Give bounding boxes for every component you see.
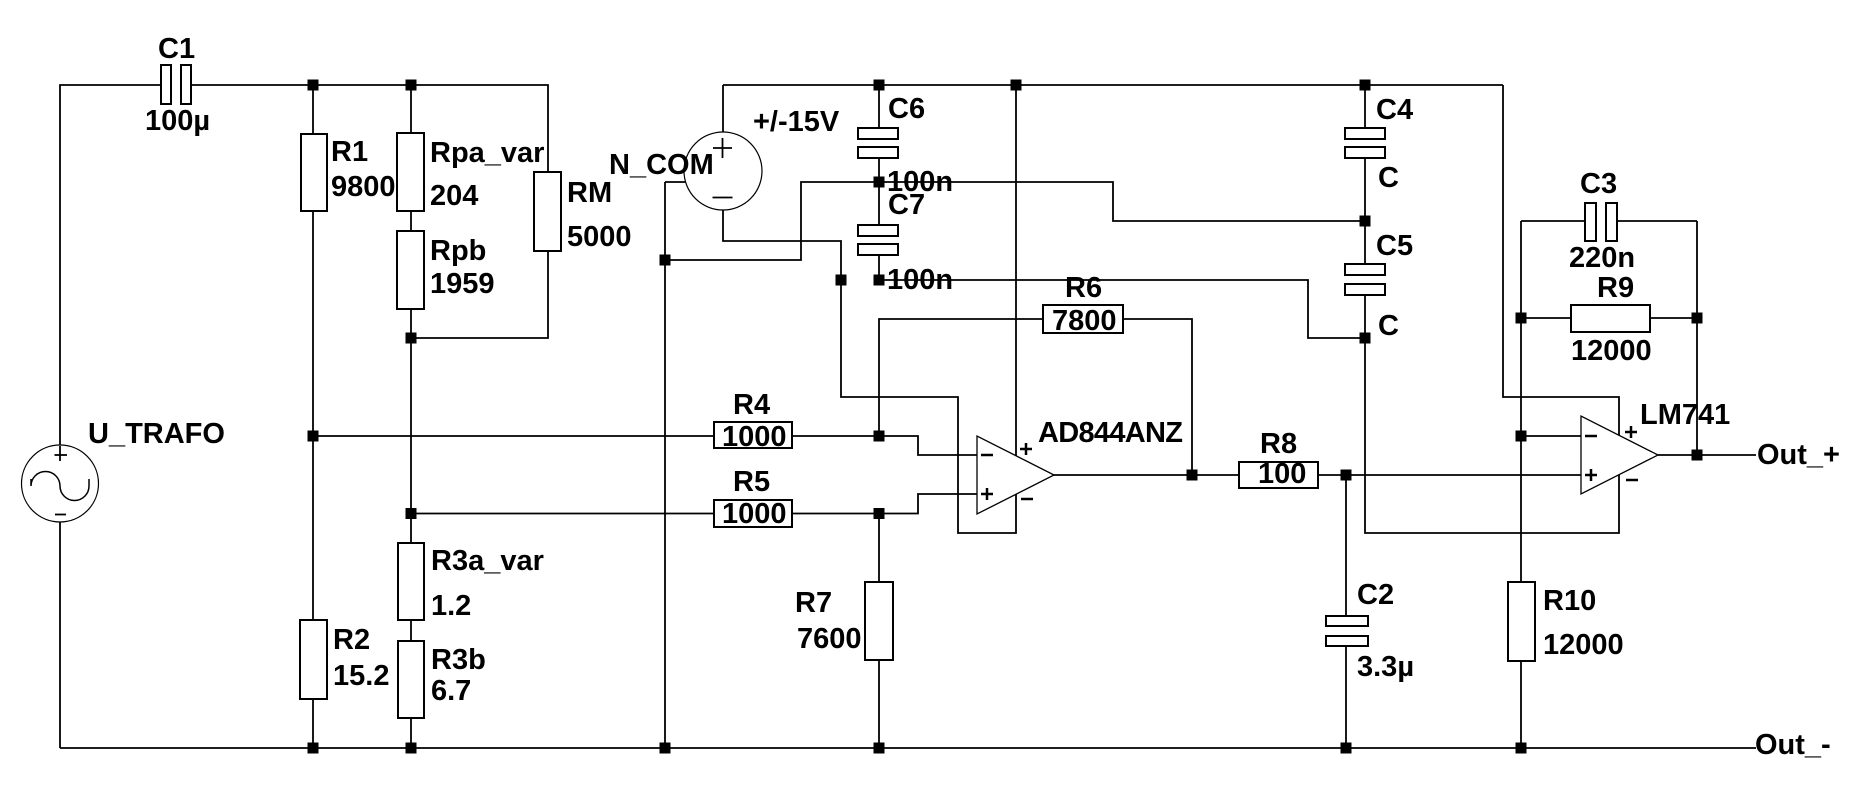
svg-text:AD844ANZ: AD844ANZ xyxy=(1038,417,1182,449)
wire R3b bottom to bottom rail xyxy=(410,718,412,748)
wire R4 input from R1-R2 tap xyxy=(313,435,714,437)
wire left edge: C1 left plate to U_TRAFO plus terminal xyxy=(60,85,161,445)
capacitor C4 xyxy=(1345,128,1385,158)
svg-text:1000: 1000 xyxy=(722,421,787,453)
wire feedback right leg down to output xyxy=(1696,221,1698,455)
wire N_COM stub to source edge xyxy=(665,181,686,183)
svg-text:R3b: R3b xyxy=(431,644,486,676)
node LM741 output xyxy=(1692,450,1703,461)
svg-text:12000: 12000 xyxy=(1571,335,1652,367)
wire Rpa top stem xyxy=(410,85,412,133)
wire bottom rail Out_- xyxy=(60,747,1756,749)
node R9 left xyxy=(1516,313,1527,324)
node top rail at C6 xyxy=(874,80,885,91)
capacitor C2 xyxy=(1326,616,1368,646)
node bottom rail at N_COM xyxy=(660,743,671,754)
svg-text:R6: R6 xyxy=(1065,272,1102,304)
svg-text:9800: 9800 xyxy=(331,171,396,203)
svg-text:1000: 1000 xyxy=(722,498,787,530)
wire LM741 output to Out_+ xyxy=(1658,454,1756,456)
resistor R2 xyxy=(300,620,327,699)
wire U_TRAFO minus terminal to bottom rail xyxy=(59,522,61,748)
wire R8 output to LM741 non-inverting input xyxy=(1318,474,1581,476)
resistor R3b xyxy=(398,641,424,718)
wire Rpa to Rpb link xyxy=(410,211,412,231)
svg-text:R4: R4 xyxy=(733,389,770,421)
wire AD844 inverting input xyxy=(879,436,977,455)
wire Rpb bottom to R3a top xyxy=(410,309,412,543)
wire R5 input from R3 tap xyxy=(411,513,714,515)
svg-text:RM: RM xyxy=(567,177,612,209)
wire C4 top stem xyxy=(1364,85,1366,128)
svg-text:100n: 100n xyxy=(887,264,953,296)
node Rpb bottom xyxy=(406,333,417,344)
node R5 tap xyxy=(406,508,417,519)
wire N_COM junction to C6 bottom node xyxy=(665,182,879,260)
wire C3-R9 left leg down to R10 xyxy=(1520,221,1522,582)
wire R8 node down to C2 top xyxy=(1345,475,1347,616)
node bottom rail at C2 xyxy=(1341,743,1352,754)
svg-text:7800: 7800 xyxy=(1052,305,1117,337)
wire C6 bottom stem xyxy=(878,158,880,182)
node source minus at return xyxy=(836,275,847,286)
node top rail at Rpa xyxy=(406,80,417,91)
wire C7 bottom stem xyxy=(878,256,880,280)
capacitor C6 xyxy=(858,128,898,158)
node C6 bottom 100n xyxy=(874,177,885,188)
resistor R5 xyxy=(714,500,792,527)
svg-text:R2: R2 xyxy=(333,624,370,656)
wire R9 left lead xyxy=(1521,317,1571,319)
resistor R1 xyxy=(301,134,327,211)
svg-text:Out_+: Out_+ xyxy=(1757,439,1840,471)
wire N_COM vertical to bottom rail xyxy=(664,182,666,748)
svg-text:1.2: 1.2 xyxy=(431,590,471,622)
node C7 bottom 100n xyxy=(874,275,885,286)
resistor R10 xyxy=(1508,582,1535,661)
op-amp U1 AD844ANZ xyxy=(977,436,1054,514)
svg-text:6.7: 6.7 xyxy=(431,675,471,707)
resistor Rpb xyxy=(397,231,424,309)
node top rail at C4 xyxy=(1360,80,1371,91)
wire R5 output to AD844 node xyxy=(792,513,879,515)
node top rail at return route xyxy=(1011,80,1022,91)
op-amp U2 LM741 xyxy=(1581,416,1658,494)
resistor R7 xyxy=(865,582,893,660)
svg-text:Rpa_var: Rpa_var xyxy=(430,137,544,169)
svg-text:3.3µ: 3.3µ xyxy=(1357,651,1414,683)
node bottom rail at R10 xyxy=(1516,743,1527,754)
svg-text:Rpb: Rpb xyxy=(430,235,486,267)
svg-text:R9: R9 xyxy=(1597,272,1634,304)
svg-text:204: 204 xyxy=(430,180,478,212)
AC source U_TRAFO xyxy=(22,445,99,522)
capacitor C7 xyxy=(858,225,898,255)
svg-text:R7: R7 xyxy=(795,587,832,619)
resistor Rpa_var xyxy=(397,133,424,211)
svg-text:C6: C6 xyxy=(888,93,925,125)
svg-text:7600: 7600 xyxy=(797,623,862,655)
node AD844 non-inverting xyxy=(874,508,885,519)
node C5 bottom xyxy=(1360,333,1371,344)
node C4-C5 link xyxy=(1360,216,1371,227)
svg-text:C7: C7 xyxy=(888,189,925,221)
wire top rail left: C1 right plate to RM top stem xyxy=(191,85,548,172)
wire +/-15V minus terminal route xyxy=(723,209,841,280)
svg-text:12000: 12000 xyxy=(1543,629,1624,661)
svg-text:R1: R1 xyxy=(331,136,368,168)
wire R2 bottom to bottom rail xyxy=(312,699,314,748)
capacitor C5 xyxy=(1345,264,1385,295)
svg-text:R5: R5 xyxy=(733,466,770,498)
wire +/-15V plus terminal up xyxy=(722,85,724,133)
voltage source +/-15V xyxy=(684,132,762,210)
svg-text:N_COM: N_COM xyxy=(609,149,714,181)
wire R9 right lead xyxy=(1650,317,1697,319)
svg-text:100µ: 100µ xyxy=(145,105,210,137)
svg-text:+/-15V: +/-15V xyxy=(753,106,840,138)
svg-text:15.2: 15.2 xyxy=(333,660,389,692)
svg-text:C2: C2 xyxy=(1357,579,1394,611)
wire C7 top stem xyxy=(878,182,880,225)
node top rail at R1 xyxy=(308,80,319,91)
svg-text:Out_-: Out_- xyxy=(1755,729,1831,761)
wire R7 bottom to bottom rail xyxy=(878,660,880,748)
svg-text:100: 100 xyxy=(1258,458,1306,490)
svg-text:R3a_var: R3a_var xyxy=(431,545,544,577)
node N_COM junction xyxy=(660,255,671,266)
svg-text:C1: C1 xyxy=(158,33,195,65)
node R4 tap xyxy=(308,431,319,442)
capacitor C1 xyxy=(161,65,191,104)
capacitor C3 xyxy=(1585,203,1617,241)
node R9 right xyxy=(1692,313,1703,324)
wire AD844 non-inverting input xyxy=(879,494,977,514)
wire C6 top stem xyxy=(878,85,880,128)
node bottom rail at R3b xyxy=(406,743,417,754)
wire AD844 node down to R7 top xyxy=(878,514,880,583)
wire C3 right lead xyxy=(1617,220,1697,222)
resistor R9 xyxy=(1571,305,1650,332)
node LM741 inverting xyxy=(1516,431,1527,442)
node bottom rail at R7 xyxy=(874,743,885,754)
svg-text:1959: 1959 xyxy=(430,268,495,300)
wire C3 left lead xyxy=(1521,220,1585,222)
resistor R3a_var xyxy=(398,543,424,620)
svg-text:C4: C4 xyxy=(1376,94,1413,126)
wire R10 bottom to bottom rail xyxy=(1520,661,1522,748)
resistor R6 xyxy=(1043,305,1123,333)
node AD844 inverting xyxy=(874,431,885,442)
resistor R8 xyxy=(1239,462,1318,488)
wire LM741 inverting input xyxy=(1521,435,1581,437)
svg-text:C5: C5 xyxy=(1376,230,1413,262)
wire supply return route to top rail xyxy=(841,85,1016,533)
svg-text:R8: R8 xyxy=(1260,428,1297,460)
svg-text:LM741: LM741 xyxy=(1640,399,1730,431)
wire C4 bottom to C5 top xyxy=(1364,158,1366,264)
wire C2 bottom to bottom rail xyxy=(1345,646,1347,748)
wire top rail right xyxy=(723,84,1503,86)
svg-text:C: C xyxy=(1378,310,1399,342)
svg-text:5000: 5000 xyxy=(567,221,632,253)
svg-text:U_TRAFO: U_TRAFO xyxy=(88,418,225,450)
wire R1 bottom to R2 top xyxy=(312,211,314,620)
wire R6 left branch down to inverting node xyxy=(879,319,1043,436)
wire C7 bottom node to C5 bottom junction xyxy=(879,280,1365,338)
svg-text:C3: C3 xyxy=(1580,168,1617,200)
node bottom rail at R2 xyxy=(308,743,319,754)
wire R4 output to AD844 node xyxy=(792,435,879,437)
node R8 output xyxy=(1341,470,1352,481)
svg-text:R10: R10 xyxy=(1543,585,1596,617)
wire C5 bottom long route back to top rail xyxy=(1365,85,1619,533)
node AD844 output xyxy=(1187,470,1198,481)
resistor R4 xyxy=(714,422,792,448)
wire RM bottom to Rpb bottom junction xyxy=(411,251,548,338)
wire R6 right branch down to AD844 output node xyxy=(1123,319,1192,475)
wire R3a to R3b link xyxy=(410,620,412,641)
wire C6 bottom node to C4-C5 junction xyxy=(879,182,1365,221)
svg-text:220n: 220n xyxy=(1569,242,1635,274)
wire AD844 output to R8 xyxy=(1053,474,1239,476)
resistor RM xyxy=(534,172,561,251)
svg-text:C: C xyxy=(1378,162,1399,194)
wire R1 top stem xyxy=(312,85,314,134)
